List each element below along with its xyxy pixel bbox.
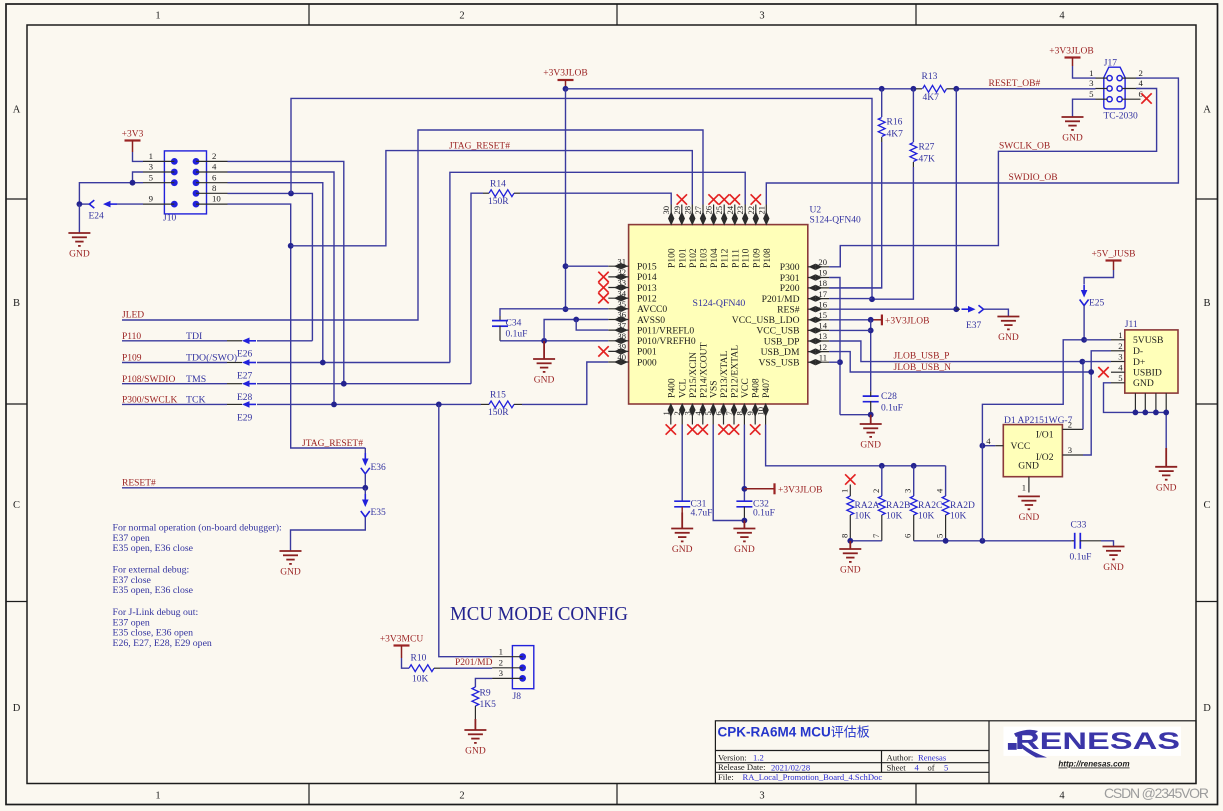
svg-text:+3V3JLOB: +3V3JLOB <box>543 69 587 79</box>
svg-text:35: 35 <box>617 299 626 309</box>
wire E35 to ground <box>291 517 366 551</box>
svg-text:P214/XCOUT: P214/XCOUT <box>698 342 709 398</box>
svg-text:JTAG_RESET#: JTAG_RESET# <box>449 142 510 152</box>
svg-text:2: 2 <box>672 411 682 415</box>
svg-text:38: 38 <box>617 331 626 341</box>
svg-text:C34: C34 <box>506 319 522 329</box>
svg-text:2: 2 <box>1118 341 1122 351</box>
resistor RA2A 10K <box>849 485 851 497</box>
svg-text:4: 4 <box>986 436 991 446</box>
svg-text:+3V3JLOB: +3V3JLOB <box>778 485 822 495</box>
wire P201/MD stub <box>829 298 872 300</box>
svg-text:P012: P012 <box>637 294 657 305</box>
capacitor C34 0.1uF <box>499 316 501 321</box>
wire TCK row <box>122 403 227 405</box>
mcu U2 top pin numbers <box>661 205 766 214</box>
svg-text:C: C <box>1203 500 1210 511</box>
svg-text:J17: J17 <box>1104 59 1117 69</box>
svg-text:22: 22 <box>746 206 756 215</box>
svg-text:1: 1 <box>1118 330 1122 340</box>
svg-text:6: 6 <box>714 411 724 416</box>
svg-text:4K7: 4K7 <box>923 93 940 103</box>
svg-text:3: 3 <box>1118 352 1122 362</box>
junction +3V3JLOB at AVCC0 <box>563 306 569 312</box>
svg-text:29: 29 <box>672 206 682 215</box>
svg-text:GND: GND <box>1156 483 1177 493</box>
svg-text:P013: P013 <box>637 283 657 294</box>
svg-text:J8: J8 <box>513 692 522 702</box>
svg-text:E35: E35 <box>371 508 387 518</box>
ground GND under D1 pin1 <box>1018 496 1040 523</box>
svg-text:E35 open, E36 close: E35 open, E36 close <box>113 585 194 596</box>
svg-text:RA2D: RA2D <box>950 501 975 511</box>
mcu U2 left pin stubs <box>608 266 628 362</box>
svg-text:1: 1 <box>1089 68 1093 78</box>
junction rail at RA2C <box>911 463 917 469</box>
svg-text:7: 7 <box>871 533 881 538</box>
resistor RA2D 10K <box>945 466 947 496</box>
svg-text:CSDN @2345VOR: CSDN @2345VOR <box>1104 785 1209 801</box>
connector J10 <box>163 151 207 224</box>
logo RENESAS <box>1004 727 1182 758</box>
jumper arrow E26 <box>242 338 250 345</box>
junction +3V3JLOB at P015 <box>563 263 569 269</box>
svg-text:31: 31 <box>617 256 626 266</box>
svg-text:0.1uF: 0.1uF <box>753 509 775 519</box>
svg-text:Version:: Version: <box>718 752 747 762</box>
mcu U2 left pin numbers <box>617 256 626 362</box>
svg-text:C33: C33 <box>1071 521 1087 531</box>
svg-text:+3V3: +3V3 <box>122 130 144 140</box>
svg-text:D1 AP2151WG-7: D1 AP2151WG-7 <box>1004 416 1073 426</box>
junction TCK and J10 pin4 <box>331 402 337 408</box>
svg-text:D-: D- <box>1133 346 1143 357</box>
mcu U2 left pin glyphs <box>615 264 627 365</box>
wire RA2A-RA2B ground pair <box>850 540 882 542</box>
svg-text:AVSS0: AVSS0 <box>637 315 665 326</box>
wire J17 pin5 to ground <box>1073 99 1096 117</box>
wire D1 I/O1 riser to USB_P <box>1082 362 1084 430</box>
junction RA2D foot <box>943 538 949 544</box>
svg-text:1: 1 <box>1022 482 1026 492</box>
jumper arrow E27 <box>242 359 250 366</box>
svg-text:4: 4 <box>1118 362 1123 372</box>
svg-text:12: 12 <box>818 342 827 352</box>
wire J17 pin2 to SWDIO_OB <box>766 78 1178 204</box>
svg-text:30: 30 <box>661 206 671 215</box>
svg-text:RENESAS: RENESAS <box>1015 728 1180 755</box>
svg-text:P215/XCIN: P215/XCIN <box>688 352 699 398</box>
svg-text:4: 4 <box>693 411 703 416</box>
svg-text:USB_DP: USB_DP <box>764 336 800 347</box>
no-connect marks left pins <box>598 272 608 282</box>
svg-text:5: 5 <box>1118 373 1122 383</box>
svg-text:RES#: RES# <box>777 305 800 316</box>
wire R10 to J8 pin2 <box>440 667 492 669</box>
svg-text:GND: GND <box>69 250 90 260</box>
mcu U2 top pin glyphs <box>669 213 674 225</box>
svg-text:19: 19 <box>818 268 827 278</box>
svg-text:0.1uF: 0.1uF <box>506 330 528 340</box>
svg-text:P407: P407 <box>761 378 772 398</box>
svg-text:C28: C28 <box>881 392 897 402</box>
J8 pads <box>519 653 526 682</box>
capacitor C33 0.1uF <box>1071 540 1075 542</box>
wire J11 pin5 to shield bus <box>1104 383 1167 413</box>
svg-text:P111: P111 <box>730 249 741 268</box>
svg-text:2: 2 <box>1139 68 1143 78</box>
svg-text:150R: 150R <box>488 408 509 418</box>
svg-text:P101: P101 <box>677 248 688 268</box>
svg-text:23: 23 <box>735 206 745 215</box>
svg-text:5: 5 <box>944 762 948 772</box>
svg-text:11: 11 <box>819 352 827 362</box>
svg-text:E29: E29 <box>237 414 253 424</box>
mcu U2 right pin names <box>732 262 800 368</box>
svg-text:P212/EXTAL: P212/EXTAL <box>730 345 741 398</box>
svg-text:1: 1 <box>661 411 671 415</box>
svg-text:S124-QFN40: S124-QFN40 <box>693 298 746 309</box>
junction shield pins <box>1133 410 1139 416</box>
power +3V3JLOB at J17 <box>1049 47 1093 67</box>
svg-text:R9: R9 <box>480 688 491 698</box>
svg-text:P109: P109 <box>751 248 762 268</box>
wire R14 to U2 P100 <box>520 193 671 204</box>
wire RESET_OB# to J17 pin3 <box>956 88 1095 90</box>
junction VCC_USB <box>868 328 874 334</box>
wire VSS_USB net to C28 foot <box>840 414 871 416</box>
wire RESET_OB# down to RES# <box>955 89 957 309</box>
wire D1 I/O2 to USB_N riser <box>1083 351 1111 455</box>
svg-text:P110: P110 <box>741 248 752 268</box>
svg-text:1: 1 <box>839 489 849 493</box>
svg-text:P011/VREFL0: P011/VREFL0 <box>637 325 694 336</box>
title block fields <box>718 752 948 782</box>
svg-text:P103: P103 <box>699 248 710 268</box>
jumper E24 <box>79 203 91 205</box>
svg-text:E27: E27 <box>237 371 253 381</box>
svg-text:3: 3 <box>499 668 504 678</box>
svg-text:E36: E36 <box>371 463 387 473</box>
svg-text:2021/02/28: 2021/02/28 <box>771 762 810 772</box>
svg-text:4K7: 4K7 <box>887 130 904 140</box>
svg-text:+5V_JUSB: +5V_JUSB <box>1092 250 1136 260</box>
wire VCC_USB stub <box>829 329 871 331</box>
junction JTAG_RESET# branch <box>288 243 294 249</box>
wire C34 bottom to P010/VREFH0 <box>500 340 608 342</box>
svg-text:1: 1 <box>155 11 160 22</box>
svg-text:P014: P014 <box>637 272 657 283</box>
svg-text:JTAG_RESET#: JTAG_RESET# <box>302 439 363 449</box>
svg-text:4.7uF: 4.7uF <box>691 509 713 519</box>
wire AVSS0 branch to P011/VREFL0 <box>576 320 608 331</box>
resistor R16 4K7 <box>881 89 883 117</box>
D1 pin names <box>1011 429 1054 471</box>
ground GND at E37 <box>997 317 1019 344</box>
wire P301 down to VSS_USB net <box>829 278 840 415</box>
mcu U2 right pin stubs <box>808 267 829 362</box>
wire AVCC0 row to C34 <box>500 309 608 316</box>
svg-text:2: 2 <box>459 791 464 802</box>
svg-text:R10: R10 <box>411 654 427 664</box>
svg-text:RESET#: RESET# <box>122 478 156 488</box>
wire USB_DM to JLOB_USB_N <box>829 352 1091 372</box>
svg-text:+3V3MCU: +3V3MCU <box>380 635 424 645</box>
J11 pin names <box>1133 335 1163 389</box>
svg-text:15: 15 <box>818 310 827 320</box>
svg-text:I/O1: I/O1 <box>1036 429 1054 440</box>
junction VCC_USB_LDO <box>868 317 874 323</box>
svg-text:GND: GND <box>672 545 693 555</box>
junction C28 foot <box>868 412 874 418</box>
svg-text:39: 39 <box>617 342 626 352</box>
wire JLED to U2 P103 <box>122 130 703 320</box>
ground GND under J10 <box>68 233 90 260</box>
svg-text:9: 9 <box>149 194 154 204</box>
svg-text:32: 32 <box>617 267 626 277</box>
ground GND under C28 <box>860 415 882 451</box>
RA2 pin numbers <box>839 488 944 538</box>
J10 pads <box>171 158 200 208</box>
svg-text:C: C <box>13 500 20 511</box>
svg-text:E25: E25 <box>1089 299 1105 309</box>
wire left rail down to ground <box>78 204 80 233</box>
wire RA2C-RA2D rail to C33 <box>914 540 1072 542</box>
svg-text:E26, E27, E28, E29 open: E26, E27, E28, E29 open <box>113 638 212 649</box>
svg-text:2: 2 <box>212 151 216 161</box>
svg-text:5: 5 <box>935 534 945 538</box>
wire P300 to SWCLK_OB run <box>829 246 840 267</box>
svg-text:0.1uF: 0.1uF <box>881 403 903 413</box>
svg-text:Renesas: Renesas <box>918 752 947 762</box>
svg-text:P015: P015 <box>637 262 657 273</box>
svg-text:P301: P301 <box>780 273 800 284</box>
wire R15 to U2 P000 <box>522 362 608 404</box>
svg-text:E37: E37 <box>966 321 982 331</box>
svg-text:17: 17 <box>818 289 827 299</box>
J10 pin numbers <box>149 151 222 204</box>
svg-text:21: 21 <box>756 206 766 215</box>
jumper E35 <box>364 488 366 498</box>
svg-text:40: 40 <box>617 352 626 362</box>
svg-text:P201/MD: P201/MD <box>762 294 800 305</box>
svg-text:47K: 47K <box>919 155 936 165</box>
J11 pin stubs <box>1111 340 1166 413</box>
svg-text:4: 4 <box>935 488 945 493</box>
svg-text:1K5: 1K5 <box>480 700 497 710</box>
svg-text:3: 3 <box>1089 78 1094 88</box>
svg-text:RA_Local_Promotion_Board_4.Sch: RA_Local_Promotion_Board_4.SchDoc <box>743 772 883 782</box>
svg-text:B: B <box>1203 298 1210 309</box>
svg-text:B: B <box>13 298 20 309</box>
junction rail at D1 column <box>980 538 986 544</box>
jumper E36 <box>364 448 366 459</box>
wire J10 pin6 to TDO column <box>228 183 323 362</box>
resistor R9 1K5 <box>472 687 479 706</box>
svg-text:3: 3 <box>149 162 154 172</box>
svg-text:P112: P112 <box>720 248 731 268</box>
no-connect J11 pin4 <box>1098 367 1108 377</box>
svg-text:TC-2030: TC-2030 <box>1104 112 1139 122</box>
capacitor C28 0.1uF <box>863 396 879 402</box>
svg-text:P300: P300 <box>780 262 800 273</box>
power +3V3JLOB top <box>543 69 587 89</box>
junction rail at RA2B <box>879 463 885 469</box>
svg-text:6: 6 <box>212 172 217 182</box>
junction ground node at C34 <box>541 338 547 344</box>
wire +3V3MCU to R10 <box>402 658 410 668</box>
wire J10 pin5 row to left rail <box>79 183 143 204</box>
svg-text:10: 10 <box>756 407 766 416</box>
wire J10 pin2 to TMS column <box>228 161 344 383</box>
wire VCC down to C32 <box>743 425 745 502</box>
svg-text:GND: GND <box>998 333 1019 343</box>
ground GND under C31 <box>671 513 693 556</box>
svg-text:10K: 10K <box>855 512 872 522</box>
svg-text:4: 4 <box>1059 11 1065 22</box>
svg-text:P104: P104 <box>709 248 720 268</box>
svg-text:RA2B: RA2B <box>886 501 910 511</box>
svg-text:4: 4 <box>1139 78 1144 88</box>
junction RESET# node <box>362 485 368 491</box>
wire C33 to ground <box>1101 541 1114 547</box>
svg-text:GND: GND <box>1062 134 1083 144</box>
svg-text:GND: GND <box>840 566 861 576</box>
svg-text:JLOB_USB_N: JLOB_USB_N <box>894 363 952 373</box>
svg-text:10K: 10K <box>412 675 429 685</box>
jumper arrow E28 <box>242 380 250 387</box>
wire J8 pin3 to R9 <box>475 678 492 687</box>
svg-text:Author:: Author: <box>887 752 914 762</box>
svg-text:File:: File: <box>718 772 734 782</box>
note text: operation modes <box>113 523 282 649</box>
junction C32 foot <box>742 518 748 524</box>
J17 pin holes <box>1107 76 1122 102</box>
svg-text:RA2A: RA2A <box>855 501 880 511</box>
ground GND at C33 <box>1103 547 1125 574</box>
junction RES# / RESET_OB# <box>953 306 959 312</box>
svg-text:1: 1 <box>149 151 153 161</box>
resistor R15 150R <box>481 403 489 405</box>
junction pin3/pin5 <box>130 180 136 186</box>
svg-text:E35 open, E36 close: E35 open, E36 close <box>113 543 194 554</box>
svg-text:GND: GND <box>860 441 881 451</box>
svg-text:3: 3 <box>1068 445 1072 455</box>
svg-text:JLED: JLED <box>122 311 144 321</box>
ground GND at J17 <box>1062 117 1084 144</box>
wire +3V3JLOB drop to P015/AVCC0 <box>565 89 567 309</box>
junction rail at R27 <box>911 86 917 92</box>
wire VSS_USB stub <box>829 361 840 363</box>
power +5V_JUSB <box>1092 250 1136 271</box>
junction TDO and J10 pin6 <box>320 360 326 366</box>
junction left rail at E24 row <box>77 201 83 207</box>
svg-text:0.1uF: 0.1uF <box>1070 553 1092 563</box>
svg-text:3: 3 <box>759 11 764 22</box>
wire J10 pin4 to TCK column <box>228 172 335 404</box>
wire P015 stub to +3V3JLOB drop <box>566 265 609 267</box>
svg-text:E28: E28 <box>237 393 253 403</box>
svg-text:E24: E24 <box>89 212 105 222</box>
wire J10 pin10 down to JTAG_RESET# node <box>228 204 366 448</box>
junction P201/MD node <box>869 296 875 302</box>
mcu U2 S124-QFN40 body <box>629 225 808 404</box>
J11 pin numbers <box>1118 330 1123 383</box>
wire P407 to resistor array rail <box>766 425 946 466</box>
wire VCC_USB_LDO stub <box>829 319 871 321</box>
svg-text:D+: D+ <box>1133 357 1145 368</box>
svg-text:P100: P100 <box>667 248 678 268</box>
ground GND under J11 <box>1155 448 1177 493</box>
wire J17 pin4 to SWCLK_OB <box>840 89 1156 267</box>
junction USB_P at J11 <box>1079 359 1085 365</box>
resistor RA2B 10K <box>881 466 883 496</box>
svg-text:5: 5 <box>1089 89 1094 99</box>
junction VCC / +3V3JLOB flag <box>742 486 748 492</box>
svg-text:33: 33 <box>617 278 626 288</box>
mcu U2 left pin names <box>637 262 696 369</box>
svg-text:26: 26 <box>704 205 714 214</box>
svg-text:+3V3JLOB: +3V3JLOB <box>1049 47 1093 57</box>
svg-text:GND: GND <box>534 376 555 386</box>
svg-text:18: 18 <box>818 278 827 288</box>
svg-text:J10: J10 <box>163 214 176 224</box>
svg-text:5VUSB: 5VUSB <box>1133 335 1163 346</box>
svg-text:VCC_USB: VCC_USB <box>756 326 799 337</box>
ground GND under RA2A <box>839 541 861 576</box>
wire J10 pin3 jog down to pin5 net <box>133 172 144 183</box>
svg-text:5: 5 <box>149 172 154 182</box>
svg-text:2: 2 <box>1068 420 1072 430</box>
capacitor C32 0.1uF <box>736 501 752 507</box>
wire MD riser from J10 pin8 up and across to U2 P201/MD <box>291 98 872 299</box>
svg-text:P200: P200 <box>780 283 800 294</box>
ground GND under C32 <box>733 521 755 556</box>
J8 pin stubs <box>492 657 522 679</box>
svg-text:1: 1 <box>499 647 503 657</box>
svg-text:P408: P408 <box>751 378 762 398</box>
wire VCL to C31 <box>681 425 683 502</box>
wire R16 to U2 P200 <box>829 142 882 288</box>
wire +3V3JLOB to J17 pin1 <box>1073 66 1096 78</box>
junction J10 pin8 and MD riser <box>288 191 294 197</box>
resistor RA2C 10K <box>913 466 915 496</box>
wire JTAG_RESET# loop to upper run <box>291 151 693 246</box>
svg-text:D: D <box>1203 703 1211 714</box>
power +3V3JLOB at VCC_USB_LDO <box>871 315 930 327</box>
mcu U2 right pin numbers <box>818 257 827 362</box>
junction USB_N at J11 <box>1088 369 1094 375</box>
svg-text:E26: E26 <box>237 350 253 360</box>
resistor R27 47K <box>912 89 914 142</box>
svg-text:USBID: USBID <box>1133 367 1162 378</box>
svg-text:8: 8 <box>839 534 849 538</box>
svg-text:J11: J11 <box>1125 320 1138 330</box>
ground GND below E35 <box>280 551 302 578</box>
no-connect marks bottom pins <box>666 424 676 434</box>
svg-text:VCC_USB_LDO: VCC_USB_LDO <box>732 315 800 326</box>
svg-text:Release Date:: Release Date: <box>718 762 765 772</box>
svg-text:10K: 10K <box>950 512 967 522</box>
svg-text:GND: GND <box>280 568 301 578</box>
svg-text:P000: P000 <box>637 357 657 368</box>
wire VCC_USB rail down to C28 <box>870 320 872 391</box>
svg-text:R14: R14 <box>490 179 506 189</box>
ground GND under R9 <box>464 719 486 757</box>
svg-text:6: 6 <box>903 533 913 538</box>
svg-text:9: 9 <box>745 411 755 415</box>
svg-text:4: 4 <box>915 762 920 772</box>
